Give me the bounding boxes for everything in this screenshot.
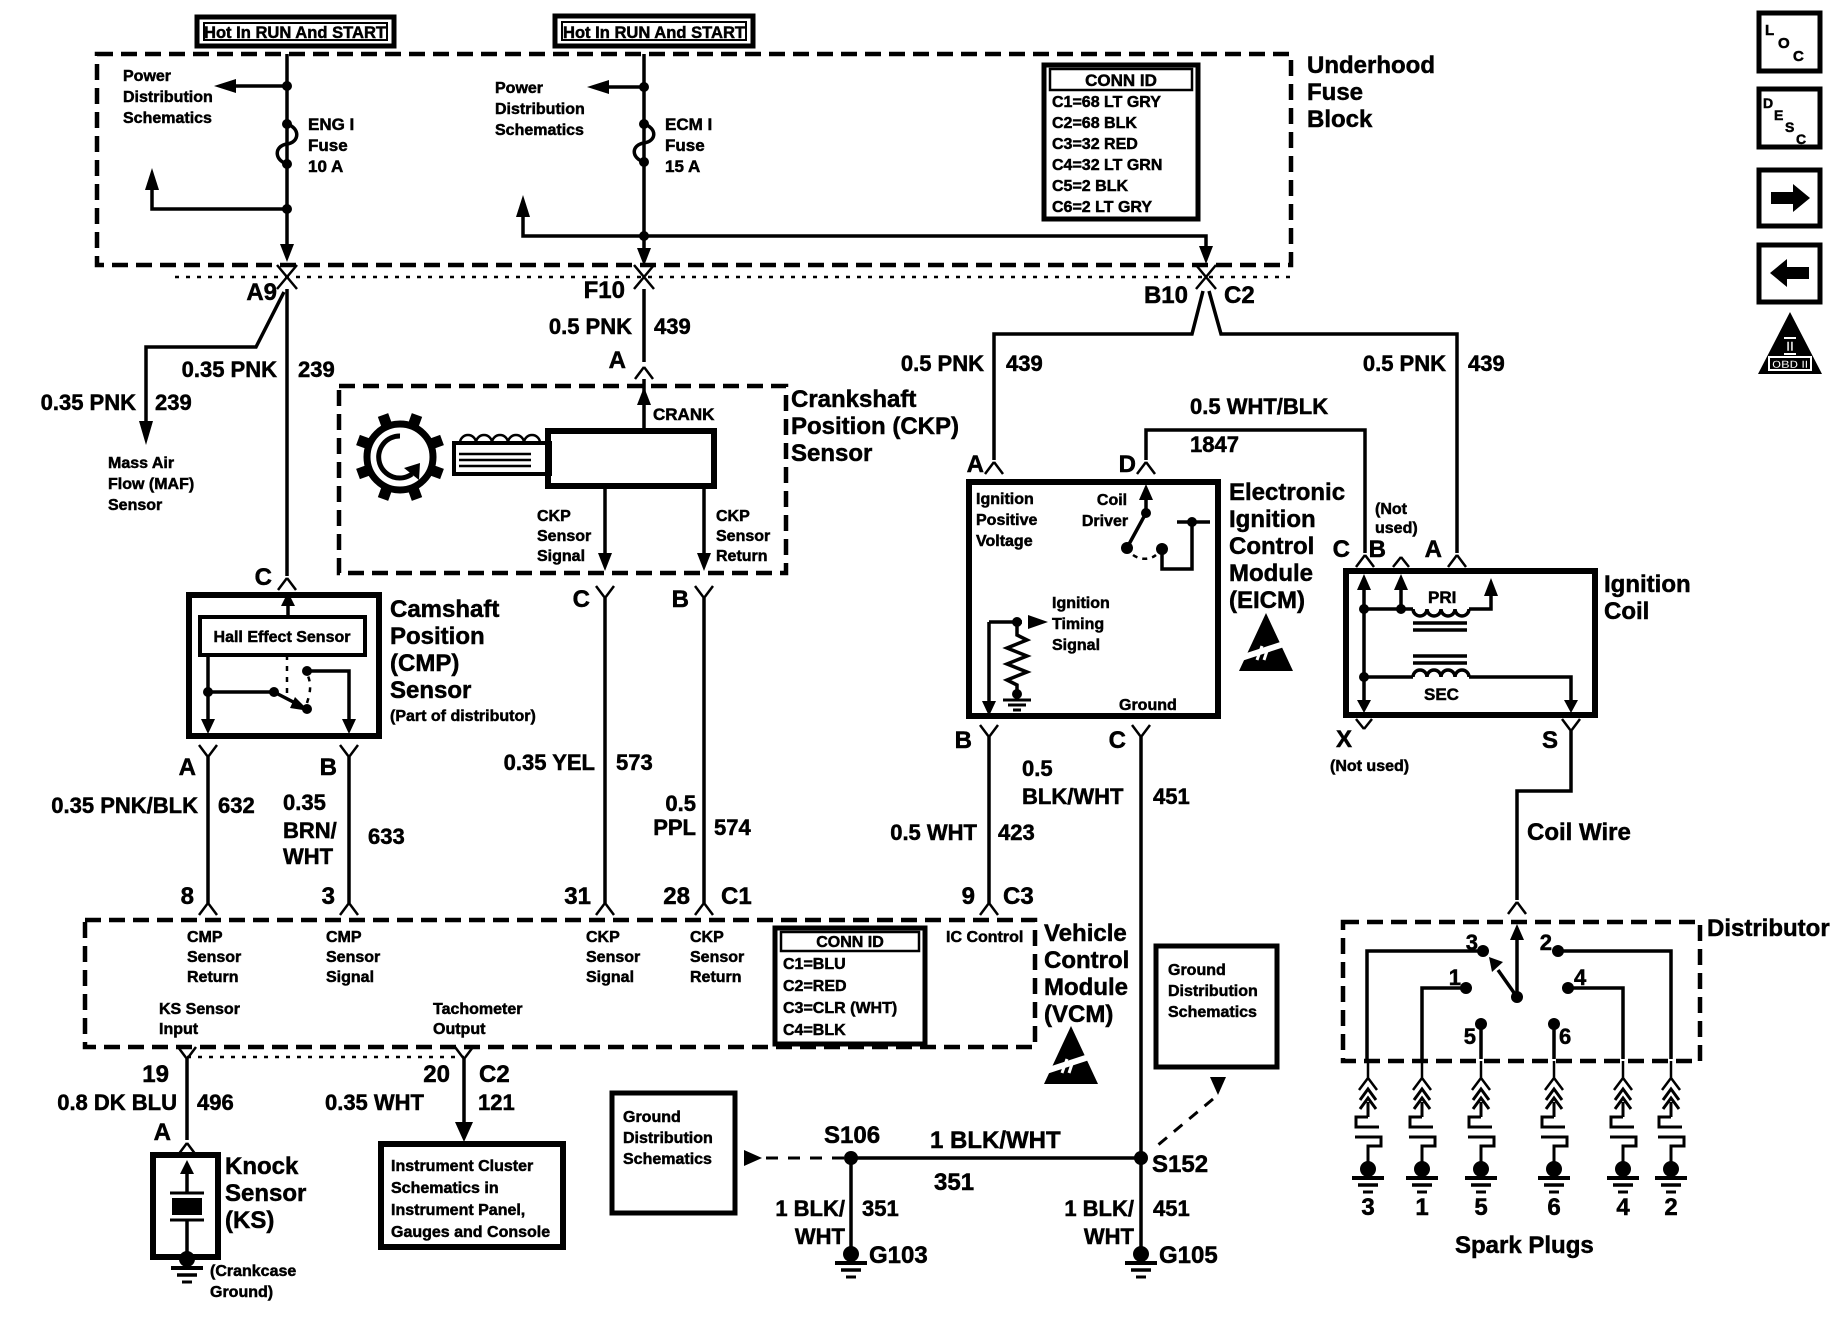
- distributor contact 6: [1548, 1018, 1571, 1059]
- svg-text:B10: B10: [1144, 282, 1188, 309]
- splice S152: [1134, 1151, 1208, 1178]
- power distribution schematics label 2: [495, 80, 585, 139]
- wire ECM I feed vertical: [642, 54, 646, 252]
- svg-text:Knock: Knock: [225, 1153, 299, 1180]
- instrument cluster arrow: [455, 1122, 473, 1142]
- connector C (CMP top): [255, 564, 296, 591]
- svg-text:Sensor: Sensor: [108, 497, 162, 514]
- svg-text:D: D: [1119, 451, 1136, 478]
- spark plug 5: [1465, 1061, 1497, 1221]
- ground distribution box 1: [612, 1093, 735, 1213]
- svg-text:C: C: [255, 564, 272, 591]
- wire S106 to S152: [851, 1156, 1141, 1160]
- svg-text:SEC: SEC: [1424, 685, 1459, 704]
- CMP switch arm: [269, 687, 312, 714]
- ESD symbol VCM: [1043, 1026, 1101, 1084]
- svg-text:Signal: Signal: [537, 548, 585, 565]
- svg-text:Return: Return: [690, 969, 742, 986]
- wire A into CKP: [642, 379, 646, 431]
- connector B10 C2: [1144, 265, 1255, 309]
- svg-text:BRN/: BRN/: [283, 818, 337, 843]
- svg-text:351: 351: [862, 1196, 899, 1221]
- svg-text:0.35 PNK/BLK: 0.35 PNK/BLK: [51, 793, 198, 818]
- svg-text:A: A: [179, 754, 196, 781]
- svg-text:Hall Effect Sensor: Hall Effect Sensor: [214, 629, 351, 646]
- svg-text:CKP: CKP: [690, 929, 724, 946]
- svg-text:Timing: Timing: [1052, 616, 1104, 633]
- connector A below CMP: [179, 745, 217, 781]
- connector A (EICM): [967, 451, 1003, 478]
- CONN ID table (VCM): [775, 928, 925, 1044]
- coil driver switch: [1121, 484, 1210, 569]
- svg-text:5: 5: [1464, 1024, 1476, 1049]
- svg-text:Ground: Ground: [623, 1109, 681, 1126]
- svg-text:Ignition: Ignition: [1229, 506, 1316, 533]
- CKP return arrow at edge: [697, 553, 711, 571]
- ignition coil box: [1346, 571, 1595, 715]
- VCM dashed box: [85, 920, 1035, 1047]
- svg-text:ECM I: ECM I: [665, 115, 712, 134]
- svg-text:574: 574: [714, 815, 751, 840]
- wire EICM C to S152: [1139, 737, 1143, 1158]
- svg-text:0.5 PNK: 0.5 PNK: [901, 351, 984, 376]
- rotor: [1489, 924, 1524, 1003]
- svg-text:(KS): (KS): [225, 1207, 274, 1234]
- svg-text:2: 2: [1540, 930, 1552, 955]
- wire CKP B to VCM 28: [702, 598, 706, 903]
- svg-text:573: 573: [616, 750, 653, 775]
- svg-text:Sensor: Sensor: [537, 528, 591, 545]
- distributor contact 5: [1464, 1018, 1487, 1059]
- connector B below CMP: [320, 745, 358, 781]
- hall left leg arrow: [201, 719, 215, 734]
- svg-text:Gauges and Console: Gauges and Console: [391, 1224, 550, 1241]
- svg-text:O: O: [1778, 35, 1790, 52]
- EICM title: [1229, 479, 1345, 614]
- svg-text:WHT: WHT: [1084, 1224, 1135, 1249]
- svg-text:Electronic: Electronic: [1229, 479, 1345, 506]
- svg-text:239: 239: [298, 357, 335, 382]
- wire 239 label: [182, 357, 335, 382]
- svg-text:Ignition: Ignition: [1052, 595, 1110, 612]
- EICM box: [969, 482, 1218, 716]
- svg-text:C: C: [1796, 131, 1806, 147]
- svg-text:5: 5: [1474, 1194, 1487, 1221]
- svg-text:439: 439: [654, 314, 691, 339]
- VCM pin labels row: [187, 929, 1023, 986]
- svg-text:0.35 PNK: 0.35 PNK: [41, 390, 136, 415]
- svg-text:Distribution: Distribution: [623, 1130, 713, 1147]
- wire 351 horizontal label: [930, 1127, 1061, 1196]
- off page arrow to S106: [744, 1150, 845, 1166]
- splice S106: [824, 1122, 880, 1165]
- connector A9: [246, 265, 297, 306]
- svg-text:CKP: CKP: [586, 929, 620, 946]
- svg-text:G105: G105: [1159, 1242, 1218, 1269]
- connector A (KS): [178, 1143, 196, 1155]
- svg-text:(Not used): (Not used): [1330, 758, 1409, 775]
- svg-text:Distribution: Distribution: [123, 89, 213, 106]
- svg-text:Sensor: Sensor: [390, 677, 471, 704]
- svg-text:3: 3: [1361, 1194, 1374, 1221]
- svg-text:C2=RED: C2=RED: [783, 978, 847, 995]
- connector F10: [584, 265, 654, 304]
- wire branch with up arrow (left section): [152, 186, 287, 209]
- svg-text:Power: Power: [123, 68, 171, 85]
- wire 573 label: [504, 750, 653, 775]
- underhood fuse block dashed box: [97, 54, 1291, 265]
- svg-text:S106: S106: [824, 1122, 880, 1149]
- connector D (EICM): [1119, 451, 1155, 478]
- svg-text:9: 9: [962, 883, 975, 910]
- svg-text:496: 496: [197, 1090, 234, 1115]
- svg-text:Output: Output: [433, 1021, 486, 1038]
- svg-text:1: 1: [1415, 1194, 1428, 1221]
- svg-text:6: 6: [1547, 1194, 1560, 1221]
- svg-text:0.5 PNK: 0.5 PNK: [1363, 351, 1446, 376]
- distributor contact 3: [1367, 930, 1489, 1059]
- wire MAF branch: [146, 292, 284, 425]
- CMP sensor box: [189, 595, 379, 736]
- connector B (coil, not used): [1369, 501, 1418, 567]
- svg-text:C4=BLK: C4=BLK: [783, 1022, 846, 1039]
- wire arrow to power distribution (right): [605, 85, 644, 89]
- svg-text:Module: Module: [1229, 560, 1313, 587]
- EICM B internal wire: [987, 622, 991, 705]
- VCM bottom connector strip: [187, 1056, 464, 1059]
- ground G103: [835, 1242, 928, 1277]
- svg-text:Positive: Positive: [976, 512, 1037, 529]
- wire 574 label: [653, 791, 751, 840]
- ignition timing signal arrow: [989, 615, 1048, 629]
- wire 1847 labels: [1190, 394, 1328, 457]
- svg-text:20: 20: [423, 1061, 450, 1088]
- svg-text:C1: C1: [721, 883, 752, 910]
- fuse ENG I label: [308, 115, 354, 176]
- wire MAF arrow: [139, 421, 153, 445]
- wire branch with up arrow (right section): [523, 213, 644, 236]
- connector C below EICM: [1109, 725, 1150, 754]
- svg-text:L: L: [1765, 22, 1774, 39]
- svg-text:0.8 DK BLU: 0.8 DK BLU: [57, 1090, 177, 1115]
- svg-text:F10: F10: [584, 277, 625, 304]
- primary winding: [1364, 578, 1498, 616]
- LOC icon: [1759, 13, 1820, 71]
- svg-text:28: 28: [663, 883, 690, 910]
- svg-text:Hot In RUN And START: Hot In RUN And START: [563, 23, 746, 42]
- wire VCM 20 to instrument cluster: [462, 1059, 466, 1125]
- svg-text:15 A: 15 A: [665, 157, 700, 176]
- svg-text:121: 121: [478, 1090, 515, 1115]
- svg-text:KS Sensor: KS Sensor: [159, 1001, 240, 1018]
- svg-text:(EICM): (EICM): [1229, 587, 1305, 614]
- wire A9 to CMP C: [285, 289, 289, 576]
- instrument cluster box: [381, 1144, 563, 1247]
- connector S (coil): [1542, 719, 1580, 754]
- svg-text:Crankshaft: Crankshaft: [791, 386, 916, 413]
- wire 451 vertical label: [1064, 1196, 1189, 1249]
- svg-text:WHT: WHT: [283, 844, 334, 869]
- svg-text:E: E: [1774, 107, 1783, 123]
- wire S152 to G105: [1139, 1158, 1143, 1247]
- svg-text:Ground): Ground): [210, 1284, 273, 1301]
- svg-text:Instrument Cluster: Instrument Cluster: [391, 1158, 533, 1175]
- VCM lower labels: [159, 1001, 523, 1038]
- CKP signal label: [537, 508, 591, 565]
- wire CMP A to VCM 8: [206, 757, 210, 903]
- svg-text:423: 423: [998, 820, 1035, 845]
- spark plug 2: [1655, 1061, 1687, 1221]
- distributor dashed box: [1343, 922, 1700, 1061]
- ground G105: [1125, 1242, 1218, 1277]
- svg-text:Position (CKP): Position (CKP): [791, 413, 959, 440]
- svg-text:Sensor: Sensor: [690, 949, 744, 966]
- svg-text:Position: Position: [390, 623, 485, 650]
- ground distribution box 2: [1156, 946, 1277, 1067]
- connector 19 (VCM bottom): [142, 1047, 196, 1088]
- svg-text:C3=CLR (WHT): C3=CLR (WHT): [783, 1000, 897, 1017]
- off page arrow below box 2: [1152, 1077, 1226, 1150]
- wire CMP B to VCM 3: [347, 757, 351, 903]
- CMP title: [390, 596, 536, 725]
- svg-text:0.5 WHT: 0.5 WHT: [890, 820, 977, 845]
- secondary winding: [1364, 670, 1578, 713]
- svg-text:(VCM): (VCM): [1044, 1001, 1113, 1028]
- svg-text:Power: Power: [495, 80, 543, 97]
- svg-text:B: B: [955, 727, 972, 754]
- node junction dot 1: [282, 81, 292, 91]
- svg-text:8: 8: [181, 883, 194, 910]
- wire 1847 EICM D to coil C: [1146, 430, 1365, 553]
- ignition timing signal label: [1052, 595, 1110, 654]
- svg-text:Sensor: Sensor: [716, 528, 770, 545]
- svg-text:B: B: [1369, 536, 1386, 563]
- svg-text:Schematics: Schematics: [123, 110, 212, 127]
- wire VCM 19 to KS: [185, 1059, 189, 1140]
- svg-text:0.35 WHT: 0.35 WHT: [325, 1090, 425, 1115]
- svg-text:PRI: PRI: [1428, 588, 1456, 607]
- svg-text:Fuse: Fuse: [308, 136, 348, 155]
- connector X (coil, not used): [1330, 719, 1409, 775]
- svg-text:Spark Plugs: Spark Plugs: [1455, 1232, 1594, 1259]
- svg-text:B: B: [672, 586, 689, 613]
- CKP title: [791, 386, 959, 467]
- svg-text:C3=32 RED: C3=32 RED: [1052, 136, 1138, 153]
- CKP return label: [716, 508, 770, 565]
- hot feed label box 1: [197, 17, 394, 46]
- wire 496 label: [57, 1090, 234, 1146]
- svg-text:632: 632: [218, 793, 255, 818]
- arrow hall to C pin: [286, 604, 290, 617]
- svg-text:C1=68 LT GRY: C1=68 LT GRY: [1052, 94, 1161, 111]
- svg-text:Coil: Coil: [1097, 492, 1127, 509]
- svg-text:Schematics: Schematics: [495, 122, 584, 139]
- VCM title: [1044, 920, 1129, 1028]
- svg-text:Signal: Signal: [326, 969, 374, 986]
- back arrow icon: [1759, 245, 1820, 302]
- fuse ECM I: [634, 119, 654, 167]
- svg-text:C5=2 BLK: C5=2 BLK: [1052, 178, 1128, 195]
- connector A (coil): [1425, 536, 1466, 567]
- switch dashed throw arc: [307, 676, 310, 703]
- EICM internal ground: [1003, 689, 1031, 710]
- svg-text:Hot In RUN And START: Hot In RUN And START: [204, 23, 387, 42]
- svg-text:D: D: [1763, 95, 1773, 111]
- wire 439 F10 label: [549, 314, 691, 374]
- svg-text:C1=BLU: C1=BLU: [783, 956, 846, 973]
- svg-text:G103: G103: [869, 1242, 928, 1269]
- svg-text:Flow (MAF): Flow (MAF): [108, 476, 194, 493]
- connector B below CKP: [672, 586, 713, 613]
- svg-text:(Crankcase: (Crankcase: [210, 1263, 296, 1280]
- svg-text:A9: A9: [246, 279, 277, 306]
- svg-text:Module: Module: [1044, 974, 1128, 1001]
- svg-text:4: 4: [1616, 1194, 1630, 1221]
- wire ENG I feed vertical: [285, 54, 289, 248]
- hall left leg wire: [206, 655, 210, 723]
- DESC icon: [1759, 89, 1820, 147]
- svg-text:(CMP): (CMP): [390, 650, 459, 677]
- connector 31 (VCM): [564, 883, 614, 915]
- svg-text:Signal: Signal: [1052, 637, 1100, 654]
- svg-text:ENG I: ENG I: [308, 115, 354, 134]
- svg-text:31: 31: [564, 883, 591, 910]
- wire 423 label: [890, 820, 1035, 845]
- svg-text:Sensor: Sensor: [225, 1180, 306, 1207]
- wire feed across to B10: [644, 236, 1206, 246]
- svg-text:CMP: CMP: [187, 929, 223, 946]
- svg-text:0.5 PNK: 0.5 PNK: [549, 314, 632, 339]
- svg-text:Sensor: Sensor: [187, 949, 241, 966]
- svg-text:II: II: [1786, 338, 1794, 354]
- svg-text:0.35 YEL: 0.35 YEL: [504, 750, 595, 775]
- CMP fixed contact: [302, 666, 356, 734]
- wire MAF 239 label: [41, 390, 192, 415]
- svg-text:C3: C3: [1003, 883, 1034, 910]
- hall dashed control line: [286, 655, 289, 695]
- svg-text:Input: Input: [159, 1021, 199, 1038]
- knock sensor element: [170, 1160, 204, 1252]
- fuse ECM I label: [665, 115, 712, 176]
- connector 3 (VCM): [322, 883, 358, 915]
- node junction dot 2: [282, 204, 292, 214]
- svg-text:C2=68 BLK: C2=68 BLK: [1052, 115, 1137, 132]
- CKP signal arrow at edge: [598, 553, 612, 571]
- svg-text:Distribution: Distribution: [495, 101, 585, 118]
- svg-text:Ground: Ground: [1119, 697, 1177, 714]
- connector 9 C3 (VCM): [962, 883, 1034, 915]
- svg-text:Driver: Driver: [1082, 513, 1128, 530]
- svg-text:S152: S152: [1152, 1151, 1208, 1178]
- EICM B internal arrow: [982, 701, 996, 716]
- svg-text:C: C: [1793, 48, 1804, 65]
- fuse ENG I: [277, 119, 297, 169]
- svg-text:A: A: [154, 1119, 171, 1146]
- svg-text:X: X: [1336, 726, 1352, 753]
- power distribution schematics label 1: [123, 68, 213, 127]
- svg-text:used): used): [1375, 520, 1418, 537]
- svg-text:439: 439: [1006, 351, 1043, 376]
- svg-text:Instrument Panel,: Instrument Panel,: [391, 1202, 525, 1219]
- ignition coil title: [1604, 571, 1691, 625]
- hall effect sensor box: [200, 617, 365, 655]
- hot feed label box 2: [555, 16, 753, 46]
- svg-text:Schematics in: Schematics in: [391, 1180, 499, 1197]
- svg-text:Block: Block: [1307, 106, 1373, 133]
- wire 351 vertical label: [775, 1196, 898, 1249]
- svg-text:Vehicle: Vehicle: [1044, 920, 1127, 947]
- svg-text:351: 351: [934, 1169, 974, 1196]
- CKP sensor body: [548, 431, 714, 486]
- wire 121 label: [325, 1090, 515, 1115]
- CKP sensor dashed box: [339, 386, 786, 573]
- svg-text:1847: 1847: [1190, 432, 1239, 457]
- svg-text:Distribution: Distribution: [1168, 983, 1258, 1000]
- knock sensor box: [153, 1155, 218, 1257]
- connector 8 (VCM): [181, 883, 217, 915]
- svg-text:0.35 PNK: 0.35 PNK: [182, 357, 277, 382]
- svg-text:IC Control: IC Control: [946, 929, 1023, 946]
- coil B internal wire: [1394, 574, 1408, 614]
- svg-text:Return: Return: [187, 969, 239, 986]
- svg-text:S: S: [1542, 727, 1558, 754]
- svg-text:C: C: [573, 586, 590, 613]
- wire 439 left label: [901, 351, 1043, 376]
- wire F10 to CRANK: [642, 289, 646, 362]
- connector distributor top: [1508, 902, 1526, 914]
- svg-text:1 BLK/: 1 BLK/: [1064, 1196, 1134, 1221]
- svg-text:CONN ID: CONN ID: [1085, 71, 1157, 90]
- spark plug 4: [1607, 1061, 1639, 1221]
- wire arrow to power distribution (left): [232, 84, 287, 88]
- svg-text:C2: C2: [479, 1061, 510, 1088]
- svg-text:0.5: 0.5: [1022, 756, 1053, 781]
- svg-text:1 BLK/WHT: 1 BLK/WHT: [930, 1127, 1061, 1154]
- svg-text:Schematics: Schematics: [1168, 1004, 1257, 1021]
- svg-text:Return: Return: [716, 548, 768, 565]
- svg-text:A: A: [1425, 536, 1442, 563]
- svg-text:239: 239: [155, 390, 192, 415]
- svg-text:Coil: Coil: [1604, 598, 1649, 625]
- wire B10 split right: [1209, 291, 1457, 553]
- wire EICM B to VCM 9: [987, 737, 991, 903]
- svg-text:PPL: PPL: [653, 815, 696, 840]
- svg-text:Sensor: Sensor: [326, 949, 380, 966]
- connector A (CKP): [635, 367, 653, 379]
- CRANK arrow: [637, 387, 651, 405]
- svg-text:Tachometer: Tachometer: [433, 1001, 523, 1018]
- pickup coil element: [454, 435, 550, 474]
- connector strip dotted line: [175, 276, 1291, 279]
- svg-text:Coil Wire: Coil Wire: [1527, 819, 1631, 846]
- CMP switch pivot wire: [208, 690, 274, 694]
- CONN ID table (fuse block): [1044, 65, 1198, 219]
- svg-text:(Not: (Not: [1375, 501, 1408, 518]
- svg-text:Control: Control: [1044, 947, 1129, 974]
- svg-text:3: 3: [322, 883, 335, 910]
- wire down arrow into F10: [637, 248, 651, 266]
- distributor contact 4: [1562, 965, 1623, 1059]
- connector 20 C2 (VCM bottom): [423, 1047, 509, 1088]
- svg-text:OBD II: OBD II: [1772, 359, 1808, 371]
- ESD symbol EICM: [1238, 613, 1296, 671]
- coil wire S to distributor: [1517, 731, 1571, 900]
- connector C below CKP: [573, 586, 614, 613]
- svg-text:0.5 WHT/BLK: 0.5 WHT/BLK: [1190, 394, 1328, 419]
- wire B10 split left: [994, 291, 1203, 460]
- svg-text:A: A: [609, 347, 626, 374]
- svg-text:10 A: 10 A: [308, 157, 343, 176]
